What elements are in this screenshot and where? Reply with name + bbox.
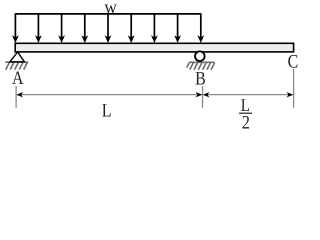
extension line at A <box>15 86 17 108</box>
dim arrow right at C <box>287 92 294 97</box>
load arrow 7 <box>151 14 158 43</box>
pin support A (triangle) <box>10 52 25 62</box>
svg-text:L: L <box>102 100 112 121</box>
dimension line B-C <box>203 94 292 96</box>
load arrow 5 <box>105 14 112 43</box>
load arrow 4 <box>81 14 88 43</box>
svg-text:2: 2 <box>242 112 250 133</box>
load arrow 2 <box>35 14 42 43</box>
dim arrow left at B <box>203 92 210 97</box>
load arrow 3 <box>58 14 65 43</box>
load arrow 1 <box>12 13 19 43</box>
load arrow 6 <box>128 14 135 43</box>
roller support B (circle) <box>195 51 205 61</box>
svg-text:w: w <box>104 0 117 18</box>
beam AB-C <box>15 43 293 52</box>
ground hatch at A <box>5 62 28 69</box>
distributed load top line <box>15 13 200 15</box>
extension line at C <box>293 69 295 108</box>
ground hatch at B <box>187 62 215 69</box>
extension line at B <box>202 86 204 108</box>
svg-text:A: A <box>12 68 24 89</box>
pin dot at A <box>16 51 18 53</box>
fraction bar <box>239 112 252 114</box>
dimension line A-B <box>17 94 202 96</box>
load arrow 9 <box>197 13 204 43</box>
load arrow 8 <box>174 14 181 43</box>
dim arrow right at B <box>196 92 203 97</box>
svg-text:B: B <box>195 69 206 90</box>
dim arrow left at A <box>16 92 23 97</box>
